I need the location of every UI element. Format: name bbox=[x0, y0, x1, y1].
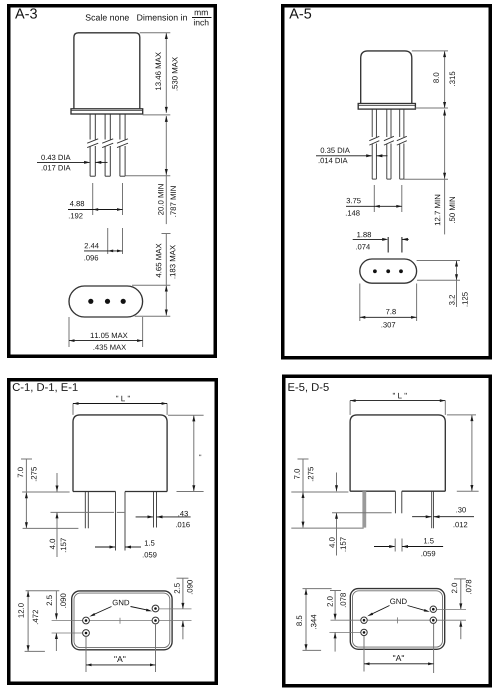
pin dot 1 (A-3 bottom view) bbox=[88, 299, 93, 304]
base oval (bottom view, A-5) bbox=[360, 259, 417, 283]
center tab (E-5) bbox=[395, 491, 401, 513]
bottom view outline (C-1) bbox=[72, 591, 172, 650]
dimension 3.75/.148 (outer lead spacing A-5) bbox=[346, 185, 402, 216]
lead 3 break mark bbox=[117, 139, 128, 148]
pin right-center (E-5 bottom view) bbox=[430, 617, 436, 623]
dimension 2.44/.096 (adjacent lead spacing) bbox=[84, 228, 123, 260]
panel C-1,D-1,E-1 title bbox=[13, 383, 78, 392]
center mark (C-1 bottom view) bbox=[119, 618, 121, 624]
dimension 2.5/.090 right (pin offset C-1) bbox=[159, 578, 193, 639]
left lead (E-5) bbox=[362, 491, 366, 527]
pin dot 2 (A-3 bottom view) bbox=[105, 299, 110, 304]
GND label with leader arrows (C-1) bbox=[89, 600, 153, 618]
lead 3 (A-5) bbox=[400, 109, 404, 179]
dimension 7.0/.275 (lead length C-1) bbox=[18, 459, 79, 528]
lead 2 (A-5) bbox=[387, 109, 391, 179]
lead 3 (A-3) bbox=[120, 114, 125, 176]
label 0.43 DIA / .017 DIA with leader bbox=[37, 155, 108, 171]
lead 2 (A-3) bbox=[105, 114, 110, 176]
crystal body (side view E-5) bbox=[350, 415, 445, 491]
bottom view inner outline (E-5) bbox=[353, 591, 443, 647]
pin right-upper (E-5 bottom view) bbox=[430, 606, 436, 612]
can flange / seating plane (A-5) bbox=[358, 104, 415, 110]
dimension 4.65 MAX/.183 MAX (base thickness) bbox=[132, 234, 175, 317]
crystal body (side view C-1) bbox=[73, 415, 167, 492]
dimension 12.7 MIN/.50 MIN (lead length A-5) bbox=[404, 110, 455, 235]
dimension 8.0/.315 (can height A-5) bbox=[412, 51, 455, 108]
pin left-lower (C-1 bottom view) bbox=[83, 630, 90, 637]
right lead (E-5) bbox=[432, 491, 434, 528]
dimension "A" (pin spacing E-5) bbox=[364, 624, 434, 673]
dimension 11.05 MAX/.435 MAX (base width) bbox=[69, 317, 143, 350]
pin left-center (E-5 bottom view) bbox=[361, 617, 367, 623]
center mark (E-5 bottom view) bbox=[397, 617, 399, 623]
panel A-3 frame bbox=[9, 6, 216, 357]
dimension 4.0/.157 (min bend distance E-5) bbox=[329, 473, 391, 556]
lead 1 break mark (A-5) bbox=[369, 136, 379, 145]
dimension 1.5/.059 (tab width E-5) bbox=[374, 538, 443, 556]
pin row2 extension line (C-1) bbox=[52, 632, 83, 634]
dimension 8.5/.344 (bottom view height E-5) bbox=[296, 589, 331, 651]
pin row2 extension line (E-5) bbox=[329, 631, 360, 633]
dimension 2.5/.090 left (pin offset C-1) bbox=[47, 591, 66, 651]
pin left-lower (E-5 bottom view) bbox=[361, 629, 367, 635]
panel E-5,D-5 title bbox=[288, 383, 328, 392]
panel A-3 title bbox=[15, 8, 37, 18]
dimension 4.88/.192 (outer lead spacing) bbox=[68, 183, 123, 218]
dimension 7.0/.275 (lead length E-5) bbox=[291, 459, 363, 528]
dimension 1.88/.074 (pin spacing A-5 bottom view) bbox=[353, 232, 409, 253]
dimension "L" (body width C-1) bbox=[73, 396, 167, 415]
lead 1 (A-3) bbox=[90, 114, 95, 176]
panel E-5,D-5 frame bbox=[284, 376, 491, 686]
dimension body height (E-5 side view) bbox=[447, 415, 479, 491]
pin left-center (C-1 bottom view) bbox=[83, 617, 90, 624]
dimension 13.46 MAX/.530 MAX (can height) bbox=[140, 33, 178, 115]
pin dot 1 (A-5 bottom view) bbox=[373, 269, 377, 273]
dimension 7.8/.307 (base width A-5) bbox=[360, 284, 417, 328]
pin dot 3 (A-3 bottom view) bbox=[121, 299, 126, 304]
dimension 3.2/.125 (base thickness A-5) bbox=[417, 261, 468, 308]
can body (side view, A-5) bbox=[361, 51, 412, 104]
GND label with leader arrows (E-5) bbox=[367, 599, 431, 618]
tab extension lines (E-5) bbox=[395, 539, 402, 552]
dimension 2.0/.078 left (pin offset E-5) bbox=[327, 591, 346, 652]
can body (side view, A-3) bbox=[74, 33, 140, 109]
lead 2 break mark bbox=[102, 139, 113, 148]
dimension "L" (body width E-5) bbox=[350, 393, 445, 415]
center tab (C-1) bbox=[116, 492, 126, 551]
header: scale / dimension note bbox=[86, 14, 187, 20]
dimension 4.0/.157 (min bend distance C-1) bbox=[50, 473, 125, 557]
horizontal centerline (E-5 bottom view) bbox=[331, 619, 467, 621]
pin right-center (C-1 bottom view) bbox=[152, 617, 159, 624]
right lead (C-1) bbox=[154, 492, 157, 528]
pin dot 3 (A-5 bottom view) bbox=[399, 269, 403, 273]
left lead (C-1) bbox=[85, 492, 88, 529]
panel A-5 frame bbox=[283, 6, 491, 358]
lead 3 break mark (A-5) bbox=[397, 136, 407, 145]
dimension 1.5/.059 (tab width C-1) bbox=[95, 540, 157, 557]
lead 1 (A-5) bbox=[372, 109, 376, 179]
dimension .43/.016 (lead dia C-1) bbox=[136, 511, 191, 527]
panel A-5 title bbox=[289, 9, 311, 19]
body bottom edge with center gap (E-5) bbox=[350, 490, 445, 492]
dimension .30/.012 (lead dia E-5) bbox=[412, 507, 474, 527]
dimension body height (C-1 side view) bbox=[168, 415, 204, 491]
dimension 2.0/.078 right (pin offset E-5) bbox=[437, 579, 472, 639]
body bottom edge with center gap bbox=[73, 491, 167, 493]
bottom view inner outline (C-1) bbox=[74, 593, 170, 648]
label 0.35 DIA / .014 DIA with leader bbox=[316, 148, 388, 164]
lead 1 break mark bbox=[87, 139, 98, 148]
dimension 20.0 MIN/.787 MIN (lead length) bbox=[125, 116, 176, 224]
lead 2 break mark (A-5) bbox=[384, 136, 394, 145]
pin dot 2 (A-5 bottom view) bbox=[386, 269, 390, 273]
pin right-upper (C-1 bottom view) bbox=[152, 605, 159, 612]
units fraction mm/inch bbox=[192, 11, 212, 26]
horizontal centerline (C-1 bottom view) bbox=[52, 620, 192, 622]
dimension "A" (pin spacing C-1) bbox=[86, 624, 156, 672]
base oval (bottom view, A-3) bbox=[69, 286, 143, 317]
bottom view outline (E-5) bbox=[350, 589, 444, 650]
can flange / seating plane bbox=[71, 109, 143, 114]
panel C-1,D-1,E-1 frame bbox=[9, 380, 217, 684]
dimension 12.0/.472 (bottom view height C-1) bbox=[18, 591, 59, 652]
